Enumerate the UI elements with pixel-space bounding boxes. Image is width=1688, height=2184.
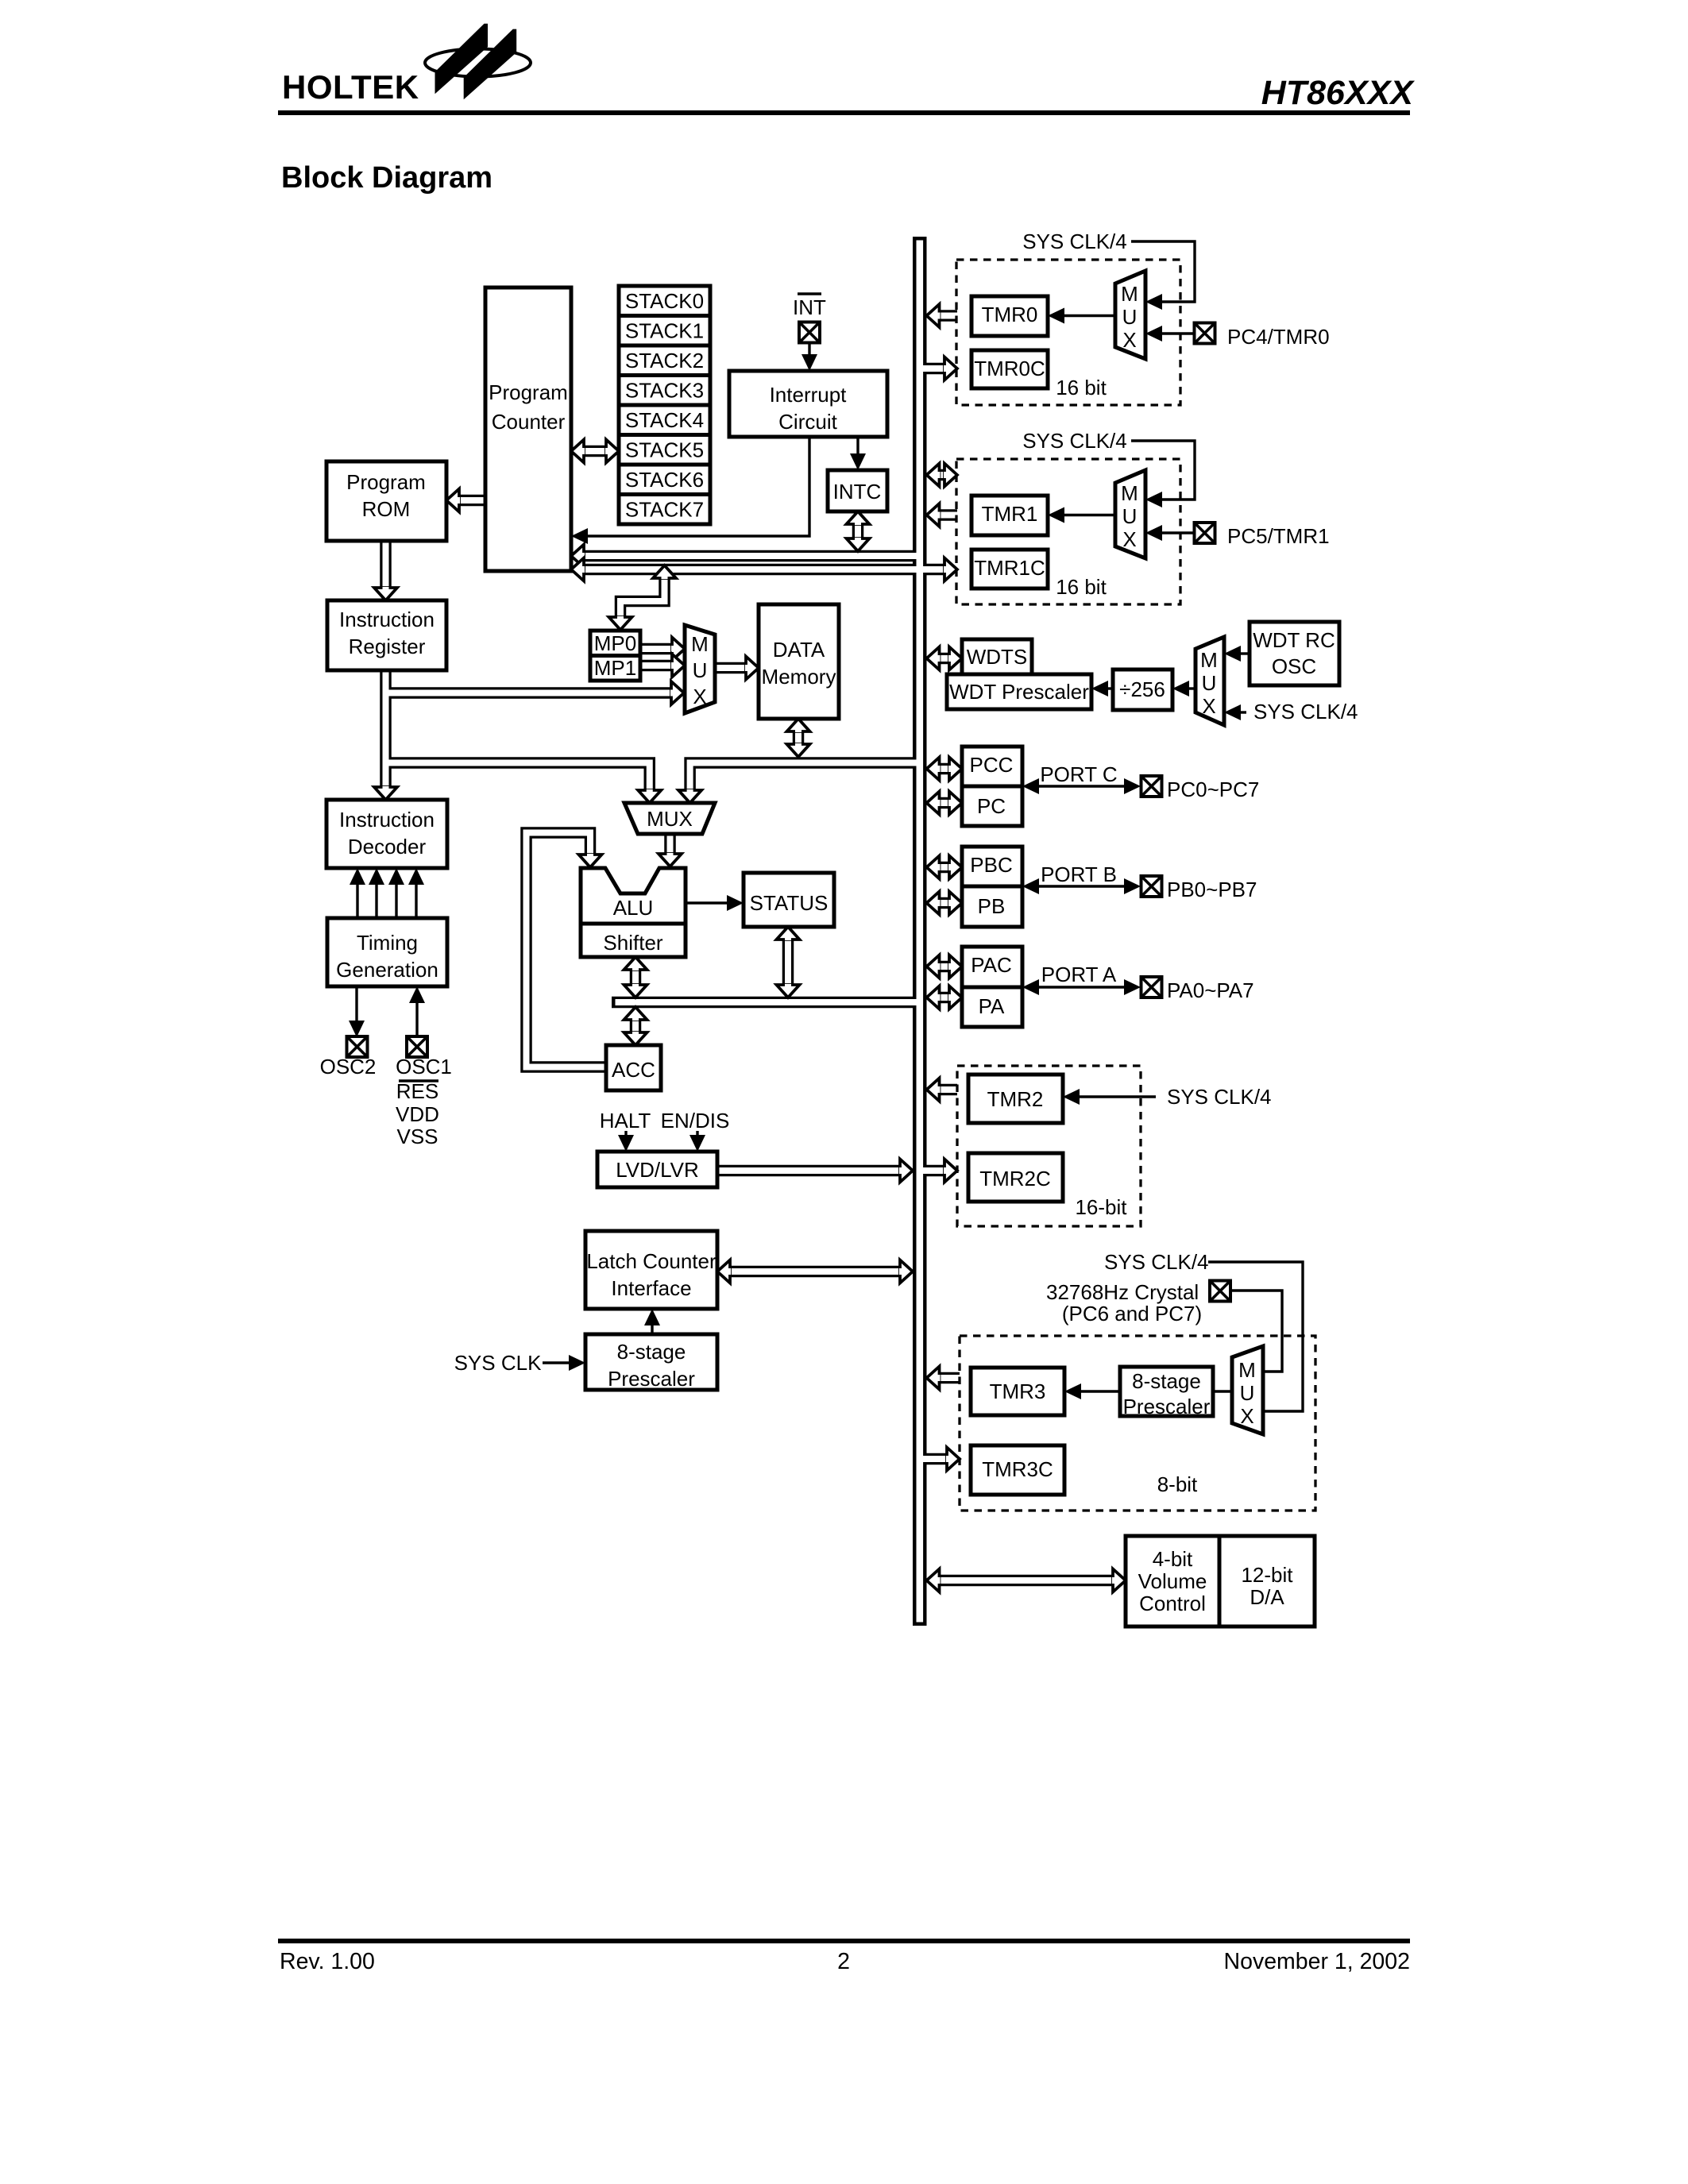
wire bus to TMR2C (black) — [921, 1165, 944, 1177]
wire IR to MUX1 (black) — [386, 687, 672, 699]
svg-text:U: U — [1240, 1381, 1255, 1405]
wire bus to MUX2 (white) — [690, 763, 920, 791]
block MP0 — [590, 631, 640, 656]
arrowhead TMR3 to bus — [927, 1367, 941, 1390]
arrowhead INT to Interrupt Circuit — [802, 354, 817, 371]
wire TMR3 to bus (black) — [939, 1372, 960, 1384]
wire HALT to LVD/LVR — [624, 1131, 627, 1137]
block WDTS — [962, 639, 1032, 675]
svg-text:Decoder: Decoder — [348, 835, 427, 859]
svg-text:HT86XXX: HT86XXX — [1261, 74, 1416, 112]
arrowhead at WDT MUX lower — [1224, 704, 1241, 720]
svg-text:X: X — [1122, 328, 1136, 352]
block LVD/LVR — [597, 1152, 717, 1187]
svg-text:X: X — [693, 685, 706, 708]
svg-text:MP1: MP1 — [594, 656, 636, 680]
svg-text:November 1, 2002: November 1, 2002 — [1224, 1949, 1410, 1974]
svg-text:TMR3C: TMR3C — [982, 1457, 1053, 1481]
wire bus-TMR1 dbl (white) — [939, 472, 944, 478]
svg-text:OSC1: OSC1 — [396, 1055, 452, 1078]
wire PC-STACK5 (black) — [584, 446, 606, 457]
block Timing Generation — [327, 918, 447, 986]
logo ellipse — [425, 49, 531, 77]
arrowheads Shifter-bar — [624, 957, 647, 970]
block WDT Prescaler — [947, 674, 1091, 709]
wire SYS CLK/4 to TMR0 MUX — [1131, 241, 1195, 302]
wire TMR0 MUX to TMR0 — [1062, 314, 1115, 317]
arrowhead bus to TMR2C — [944, 1160, 957, 1183]
wire IR to Instruction Decoder (black) — [380, 670, 392, 787]
arrowhead TMR0 to bus — [927, 304, 941, 327]
wire TMR2 to bus (black) — [939, 1084, 957, 1096]
svg-text:SYS CLK/4: SYS CLK/4 — [1104, 1250, 1209, 1274]
arrowheads bus-WDTS — [927, 647, 941, 670]
wire bus-PA (white) — [939, 994, 950, 1001]
wire Shifter to data bar (black) — [630, 968, 642, 985]
svg-text:Generation: Generation — [336, 958, 438, 982]
svg-text:X: X — [1202, 694, 1215, 718]
svg-text:RES: RES — [396, 1079, 438, 1103]
wire TMR3 MUX to prescaler3 — [1213, 1390, 1232, 1392]
block PAC/PA — [962, 947, 1022, 1027]
svg-text:D/A: D/A — [1250, 1585, 1284, 1609]
wire SYS CLK/4 to TMR3 MUX — [1208, 1262, 1303, 1411]
wire MUX2 out (white) — [667, 834, 674, 854]
svg-text:M: M — [691, 632, 709, 656]
logo lightning bolt 2 — [464, 29, 517, 100]
svg-text:PA: PA — [979, 994, 1005, 1018]
svg-text:4-bit: 4-bit — [1153, 1547, 1193, 1571]
svg-text:INTC: INTC — [833, 480, 882, 504]
arrowhead prescaler3 at TMR3 — [1064, 1383, 1081, 1399]
block 8-stage Prescaler TMR3 — [1120, 1367, 1213, 1416]
arrowheads STATUS-bar — [777, 927, 800, 940]
block STACK array — [619, 286, 710, 524]
wire TMR0 to bus (black) — [939, 310, 957, 322]
arrowhead TMR2 to bus — [927, 1078, 941, 1102]
wire STATUS-bar (white) — [785, 938, 791, 985]
wire MUX1-DM (white) — [715, 665, 746, 671]
wire MP0-MUX1 (white) — [640, 646, 672, 652]
wire bus-WDTS (white) — [939, 655, 950, 662]
svg-text:÷256: ÷256 — [1119, 677, 1165, 701]
svg-text:Program: Program — [346, 470, 426, 494]
svg-text:ROM: ROM — [362, 497, 411, 521]
wire Interrupt Circuit to INTC — [856, 437, 859, 457]
svg-text:INT: INT — [793, 295, 826, 319]
block TMR1C — [971, 550, 1048, 588]
arrowhead LVD to bus — [899, 1160, 913, 1183]
svg-text:Interface: Interface — [611, 1276, 691, 1300]
svg-text:TMR0: TMR0 — [982, 303, 1038, 326]
dashed box TMR2 16-bit — [957, 1066, 1141, 1226]
arrowhead ROM to IR — [374, 587, 397, 600]
svg-text:8-bit: 8-bit — [1157, 1472, 1198, 1496]
svg-text:Program: Program — [489, 380, 568, 404]
logo lightning bolt 1 — [435, 24, 489, 95]
svg-text:M: M — [1121, 282, 1138, 306]
wire MUX2 to ALU (black) — [664, 834, 676, 854]
wire MP1 to MUX1 (black) — [640, 660, 672, 672]
arrowheads PORT C — [1022, 778, 1039, 794]
block Interrupt Circuit — [729, 371, 887, 437]
wire DATA Memory to bus wire (black) — [793, 730, 805, 746]
wire LVD-bus (white) — [717, 1167, 900, 1174]
arrowheads bus-volume — [927, 1569, 941, 1592]
svg-text:PC5/TMR1: PC5/TMR1 — [1227, 524, 1330, 548]
svg-text:M: M — [1238, 1358, 1256, 1382]
wire SYS CLK/4 to TMR2 — [1077, 1095, 1156, 1098]
arrowhead IR to ID — [374, 786, 397, 800]
arrowhead at OSC2 — [349, 1021, 365, 1037]
wire bus wire to MP0 (black) — [620, 578, 665, 617]
wire TMR3-bus (white) — [939, 1375, 960, 1381]
svg-text:PC4/TMR0: PC4/TMR0 — [1227, 325, 1330, 349]
svg-text:8-stage: 8-stage — [1132, 1369, 1201, 1393]
svg-text:TMR1: TMR1 — [982, 502, 1038, 526]
pad INT — [799, 322, 820, 343]
arrowheads bar-ACC — [624, 1007, 647, 1021]
pad OSC1 — [407, 1036, 427, 1057]
svg-text:STACK3: STACK3 — [625, 379, 704, 403]
wire bus to PC upper (black) — [584, 550, 920, 562]
svg-text:M: M — [1200, 648, 1218, 672]
arrowhead SYS CLK/4 at TMR0 MUX — [1145, 294, 1162, 310]
block TMR3C — [971, 1445, 1064, 1495]
wire PORT A — [1037, 986, 1126, 988]
svg-text:Timing: Timing — [357, 931, 418, 955]
wire MUX1 to DATA Memory (black) — [715, 662, 746, 674]
svg-text:WDT RC: WDT RC — [1253, 628, 1335, 652]
svg-text:Instruction: Instruction — [339, 608, 435, 631]
svg-text:SYS CLK/4: SYS CLK/4 — [1253, 700, 1358, 723]
arrowhead at WDT Prescaler — [1091, 681, 1108, 696]
svg-text:SYS CLK/4: SYS CLK/4 — [1022, 230, 1127, 253]
svg-text:STACK5: STACK5 — [625, 438, 704, 462]
pad PORT C — [1141, 776, 1162, 797]
arrowhead bus wire to PC upper — [571, 545, 585, 568]
wire INTC vert (white) — [855, 523, 861, 539]
svg-text:STACK0: STACK0 — [625, 289, 704, 313]
arrowhead IC to PC — [571, 528, 588, 544]
block Program Counter — [485, 287, 571, 571]
svg-text:32768Hz Crystal: 32768Hz Crystal — [1046, 1280, 1199, 1304]
arrowhead OSC1 at Timing Generation — [409, 986, 425, 1003]
arrowhead bus to MUX2 — [678, 789, 701, 803]
wire WDT RC OSC to WDT MUX — [1238, 652, 1250, 654]
wire SYS CLK to 8-stage Prescaler — [543, 1361, 571, 1364]
wire bus to PC upper (white) — [584, 553, 920, 559]
wire PORT B — [1037, 885, 1126, 887]
svg-text:TMR3: TMR3 — [990, 1379, 1046, 1403]
arrowheads bus-PB — [927, 892, 941, 915]
svg-text:Shifter: Shifter — [603, 931, 662, 955]
RES overline — [399, 1079, 438, 1082]
wire INT pad to Interrupt Circuit — [808, 343, 810, 358]
wire INTC to bus wire (black) — [852, 523, 864, 539]
svg-text:X: X — [1240, 1404, 1253, 1428]
arrowhead PC5 at TMR1 MUX — [1145, 525, 1162, 541]
svg-text:EN/DIS: EN/DIS — [661, 1109, 730, 1133]
wire bus-WDTS (black) — [939, 653, 950, 665]
block ACC — [606, 1045, 661, 1090]
wire IR to MUX2 (black) — [386, 763, 650, 791]
mux MUX2 — [624, 803, 715, 834]
svg-text:ALU: ALU — [613, 896, 654, 920]
dashed box TMR0 16 bit — [956, 260, 1180, 405]
svg-text:Interrupt: Interrupt — [770, 383, 848, 407]
svg-text:WDTS: WDTS — [967, 645, 1028, 669]
svg-text:ACC: ACC — [612, 1058, 655, 1082]
wire bus to MUX2 (black) — [690, 763, 913, 791]
wire bus-PB (black) — [939, 897, 950, 909]
block Latch Counter Interface — [585, 1231, 717, 1309]
wire bus to TMR1C (black) — [921, 564, 944, 576]
arrowhead at div256 — [1172, 681, 1189, 696]
wire bus to PC lower (black) — [584, 564, 920, 576]
svg-text:TMR0C: TMR0C — [974, 357, 1045, 380]
arrowheads bus-TMR1 — [927, 464, 941, 487]
svg-text:MUX: MUX — [647, 807, 693, 831]
svg-text:SYS CLK/4: SYS CLK/4 — [1167, 1085, 1272, 1109]
wire bus-PBC (black) — [939, 862, 950, 874]
pad PORT B — [1141, 876, 1162, 897]
svg-text:PAC: PAC — [971, 953, 1012, 977]
svg-text:Register: Register — [349, 635, 426, 658]
svg-text:Prescaler: Prescaler — [608, 1367, 695, 1391]
svg-text:PC: PC — [977, 794, 1006, 818]
svg-text:X: X — [1122, 527, 1136, 551]
arrowheads INTC vert — [847, 511, 870, 525]
wire bus-PBC (white) — [939, 864, 950, 870]
svg-text:PORT B: PORT B — [1041, 862, 1117, 886]
svg-text:SYS CLK: SYS CLK — [454, 1351, 542, 1375]
wire SYS CLK/4 to WDT MUX — [1238, 711, 1246, 713]
wire ROM to Instruction Register (black) — [380, 541, 392, 588]
block div256 — [1113, 669, 1172, 710]
wire bus-PAC (black) — [939, 961, 950, 973]
svg-text:MP0: MP0 — [594, 631, 636, 655]
svg-text:M: M — [1121, 481, 1138, 505]
svg-text:Latch Counter: Latch Counter — [586, 1249, 717, 1273]
arrowheads bus wire to MP0 — [653, 565, 676, 579]
block STATUS — [744, 873, 834, 927]
svg-text:TMR2C: TMR2C — [979, 1167, 1051, 1190]
block 8-stage Prescaler — [585, 1334, 717, 1390]
wire IR to ID (white) — [383, 670, 389, 787]
arrowhead SYS CLK at prescaler — [569, 1355, 585, 1371]
wire bus-TMR0C (white) — [918, 365, 944, 372]
svg-text:8-stage: 8-stage — [617, 1340, 686, 1364]
wire bus-PCC (white) — [939, 766, 950, 772]
wire TMR1 MUX to TMR1 — [1062, 514, 1115, 516]
svg-text:Circuit: Circuit — [778, 410, 837, 434]
wire WDT MUX to div256 — [1187, 687, 1196, 689]
svg-text:STACK4: STACK4 — [625, 408, 704, 432]
arrowhead EN/DIS at LVD/LVR — [689, 1135, 705, 1152]
block WDT RC OSC — [1250, 622, 1339, 685]
wires Timing Generation to Instruction Decoder — [357, 882, 416, 918]
svg-text:TMR1C: TMR1C — [974, 556, 1045, 580]
svg-text:Instruction: Instruction — [339, 808, 435, 832]
dashed box TMR1 16 bit — [956, 459, 1180, 604]
arrowhead ALU to STATUS — [727, 895, 744, 911]
wire PORT C — [1037, 785, 1126, 787]
block MP1 — [590, 656, 640, 681]
wire bus to TMR0C (black) — [921, 363, 944, 375]
wire PC5 pad to TMR1 MUX — [1160, 531, 1196, 534]
svg-text:Memory: Memory — [762, 665, 836, 689]
arrowhead bus to TMR0C — [944, 357, 957, 380]
wire prescaler3 to TMR3 — [1079, 1390, 1120, 1392]
arrowhead bus to TMR1C — [944, 558, 957, 581]
svg-text:Control: Control — [1139, 1592, 1206, 1615]
svg-text:STACK6: STACK6 — [625, 468, 704, 492]
data bus bar (black) — [612, 997, 920, 1009]
block ALU with Shifter — [581, 868, 686, 957]
wire TMR2-bus (white) — [939, 1086, 957, 1093]
wire MP0 to MUX1 (black) — [640, 643, 672, 655]
block Instruction Decoder — [326, 800, 447, 868]
block 4-bit Volume Control / 12-bit D/A — [1126, 1536, 1315, 1626]
mux TMR3 MUX — [1232, 1346, 1263, 1434]
wire Shifter-bar (white) — [632, 968, 639, 985]
wire bus wire to MP0 (white) — [620, 578, 665, 617]
svg-text:PCC: PCC — [970, 753, 1014, 777]
mux TMR0 MUX — [1115, 271, 1145, 359]
pad 32768Hz crystal — [1210, 1281, 1230, 1302]
arrowhead IR to MUX2 — [638, 789, 661, 803]
svg-text:STATUS: STATUS — [750, 891, 829, 915]
wire bus-TMR3C (white) — [918, 1456, 947, 1462]
pad PORT A — [1141, 977, 1162, 997]
svg-text:VDD: VDD — [396, 1102, 439, 1126]
arrowhead PC to ROM — [446, 489, 460, 512]
svg-text:OSC2: OSC2 — [320, 1055, 377, 1078]
wire bus-PC (black) — [939, 797, 950, 809]
mux WDT MUX — [1196, 637, 1224, 725]
wire PC to Program ROM (white) — [459, 497, 485, 504]
arrowhead MP0 to MUX1 — [671, 638, 685, 661]
wire 8-stage Prescaler to LCI — [651, 1323, 653, 1334]
svg-text:LVD/LVR: LVD/LVR — [616, 1158, 699, 1182]
wire bus to TMR3C (black) — [921, 1453, 947, 1465]
svg-text:PA0~PA7: PA0~PA7 — [1167, 978, 1254, 1002]
arrowhead at WDT MUX upper — [1224, 646, 1241, 662]
svg-text:2: 2 — [837, 1949, 850, 1974]
wire ROM to IR (white) — [383, 541, 389, 588]
arrowheads bus-PCC — [927, 758, 941, 781]
svg-text:Prescaler: Prescaler — [1123, 1395, 1211, 1418]
svg-text:PBC: PBC — [970, 853, 1012, 877]
wire TMR1-bus (white) — [939, 512, 957, 519]
arrowhead TMR1 to bus — [927, 504, 941, 527]
wire bus-PB (white) — [939, 900, 950, 906]
wire EN/DIS to LVD/LVR — [696, 1131, 698, 1137]
block TMR2 — [968, 1075, 1063, 1123]
wire PC to Program ROM (black) — [459, 495, 485, 507]
wire ACC loop (white) — [527, 833, 607, 1067]
pad PC5/TMR1 — [1195, 523, 1215, 543]
svg-text:VSS: VSS — [396, 1125, 438, 1148]
svg-text:OSC: OSC — [1272, 654, 1316, 678]
svg-text:PC0~PC7: PC0~PC7 — [1167, 778, 1259, 801]
wire bus-volume (black) — [939, 1575, 1113, 1587]
svg-text:Rev. 1.00: Rev. 1.00 — [280, 1949, 375, 1974]
block DATA Memory — [759, 604, 839, 719]
mux TMR1 MUX — [1115, 470, 1145, 558]
svg-text:PORT A: PORT A — [1041, 963, 1117, 986]
wire IR to MUX2 (white) — [386, 763, 650, 791]
wire bus-PA (black) — [939, 992, 950, 1004]
arrowheads PORT B — [1022, 878, 1039, 894]
svg-text:TMR2: TMR2 — [987, 1087, 1044, 1111]
wire PC4 pad to TMR0 MUX — [1160, 332, 1196, 334]
arrowheads DATA Memory vert — [787, 719, 810, 732]
svg-text:16-bit: 16-bit — [1075, 1195, 1127, 1219]
arrowhead HALT at LVD/LVR — [618, 1135, 634, 1152]
wire LCI-bus (white) — [730, 1268, 900, 1275]
footer rule — [278, 1939, 1410, 1943]
svg-text:Counter: Counter — [492, 410, 566, 434]
pad OSC2 — [347, 1036, 368, 1057]
wire LVD/LVR to bus (black) — [717, 1165, 900, 1177]
block TMR3 — [971, 1368, 1064, 1415]
wire bus-TMR2C (white) — [918, 1167, 944, 1174]
system bus (black layer) — [913, 237, 927, 1626]
wire Interrupt Circuit to PC — [588, 437, 809, 536]
wire STATUS to data bar (black) — [782, 938, 794, 985]
arrowheads bus-PC — [927, 792, 941, 815]
svg-text:SYS CLK/4: SYS CLK/4 — [1022, 429, 1127, 453]
arrowhead bus to TMR3C — [946, 1448, 960, 1471]
wire LCI-bus (black) — [730, 1266, 900, 1278]
arrowheads PC-STACK5 — [571, 440, 585, 463]
svg-text:STACK1: STACK1 — [625, 319, 704, 343]
wire PC-STACK5 (white) — [584, 448, 606, 454]
svg-text:Volume: Volume — [1138, 1569, 1207, 1593]
system bus (white core) — [917, 241, 924, 1623]
svg-text:(PC6 and PC7): (PC6 and PC7) — [1062, 1302, 1202, 1325]
wire bus-PC (white) — [939, 800, 950, 806]
data bus bar (white) — [616, 999, 921, 1005]
svg-text:HALT: HALT — [600, 1109, 651, 1133]
wire bus-volume (white) — [939, 1577, 1113, 1584]
wire bar-ACC (white) — [632, 1020, 639, 1034]
block TMR0C — [971, 350, 1048, 388]
wire IR to MUX1 (white) — [386, 690, 672, 696]
header rule — [278, 110, 1410, 115]
svg-text:STACK7: STACK7 — [625, 498, 704, 522]
arrowheads PORT A — [1022, 979, 1039, 995]
arrowhead IC to INTC — [850, 453, 866, 470]
arrowhead at TMR1 — [1048, 507, 1064, 523]
arrowhead MP1 to MUX1 — [671, 654, 685, 677]
wire SYS CLK/4 to TMR1 MUX — [1131, 441, 1195, 500]
arrowhead ACC loop to ALU — [579, 854, 602, 867]
arrowhead MUX1 to DATA Memory — [745, 657, 759, 680]
wire bus-TMR1 dbl (black) — [939, 469, 944, 481]
arrowheads bus-PBC — [927, 856, 941, 879]
wire data bar to ACC (black) — [630, 1020, 642, 1034]
arrowhead bus wire to PC lower — [571, 558, 585, 581]
svg-text:12-bit: 12-bit — [1241, 1563, 1293, 1587]
svg-text:PORT C: PORT C — [1040, 762, 1117, 786]
arrowheads bus-PA — [927, 986, 941, 1009]
block Instruction Register — [327, 600, 446, 670]
wire bus-TMR1C (white) — [918, 566, 944, 573]
svg-text:16 bit: 16 bit — [1056, 575, 1107, 599]
